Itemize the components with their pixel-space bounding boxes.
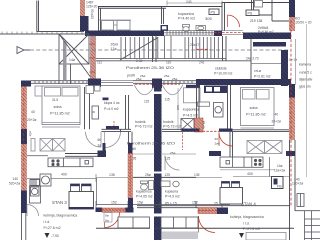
wall: navy pier right of pink left (126, 208, 134, 213)
wall: left wall of top bedroom (99, 7, 101, 31)
svg-text:305: 305 (205, 16, 212, 21)
svg-text:111: 111 (97, 61, 102, 65)
wire: counter shelf line right (220, 169, 275, 171)
text: stubiste label (214, 67, 232, 76)
text: kupaona right lower (165, 190, 180, 199)
stairs: up flight treads (121, 37, 158, 59)
wire: red dash in bath wall (129, 156, 131, 196)
door: arc bottom left entry (27, 205, 39, 217)
wire: right terrace line (295, 210, 320, 212)
svg-text:66: 66 (98, 138, 102, 142)
svg-text:kupaona: kupaona (165, 190, 178, 194)
svg-text:8ø: 8ø (105, 218, 109, 222)
furniture: washer right bath (214, 103, 224, 118)
wire: red dash in left wall (23, 88, 25, 189)
svg-text:8ø: 8ø (105, 214, 109, 218)
wall: left exterior navy lower (21, 191, 27, 214)
furniture: kitchen counter row right (220, 157, 263, 167)
wall: living right boundary (269, 157, 271, 177)
door: WC door arc (105, 132, 121, 148)
furniture: bed left soba (42, 86, 80, 125)
svg-text:15ø: 15ø (137, 201, 144, 205)
text: kitchen labels right (230, 215, 264, 231)
wire: red dashed vertical right (290, 20, 292, 206)
wire: red dashed line H1 (214, 32, 243, 34)
node: level marker right (239, 233, 254, 238)
wall: top edge right portion (222, 2, 293, 4)
wire: bed foot line (42, 123, 80, 128)
svg-text:PS: PS (211, 11, 216, 15)
wall: H2 navy band right (196, 79, 291, 85)
wall: right soba left wall (228, 85, 231, 129)
furniture: WC fixtures top (86, 86, 100, 94)
svg-text:kupaonica: kupaonica (178, 12, 194, 16)
wall: bath wall navy piece (128, 143, 133, 154)
svg-text:8ø5: 8ø5 (176, 105, 180, 111)
wall: stair wall pink hatched (91, 36, 96, 83)
svg-text:25ø: 25ø (145, 173, 151, 177)
wall: right exterior navy top (289, 0, 295, 17)
furniture: chair backs right dark (222, 182, 240, 184)
wall: pink wall left bath (102, 208, 126, 212)
svg-text:135: 135 (109, 173, 115, 177)
door: soba door arc (86, 132, 102, 147)
svg-text:kamena: kamena (299, 63, 311, 67)
text: red dim vrt (289, 58, 298, 62)
svg-text:25ø: 25ø (172, 77, 177, 81)
svg-text:P=27.6 m2: P=27.6 m2 (44, 226, 61, 230)
wall: right exterior pink lower (289, 98, 295, 141)
text: mid dim texts (109, 173, 218, 206)
svg-text:profil: profil (127, 74, 135, 78)
stairs: diagonal cut (120, 38, 158, 61)
text: Porotherm label upper (126, 66, 174, 78)
text: soba right labels (246, 106, 281, 124)
wire: kitchen left boundary (96, 178, 98, 206)
wall: bath wall pink (128, 154, 133, 199)
wall: H1 navy band right (243, 33, 291, 40)
svg-text:40: 40 (275, 113, 279, 117)
node: PS shaft box 2 (246, 10, 259, 16)
text: 25o marks (136, 77, 177, 81)
furniture: washer bottom left (30, 186, 41, 203)
wall: stair mid wall (153, 36, 157, 62)
wall: right exterior pink top (289, 17, 295, 31)
wire: mid dim line y204 (96, 201, 230, 208)
wire: top dimension line (167, 1, 222, 6)
door: small arc right hodnik (165, 156, 180, 171)
furniture: appliance box 1 (40, 174, 51, 186)
door: dark door leaf (103, 143, 106, 151)
svg-text:17ø: 17ø (111, 47, 118, 51)
furniture: beds top room (102, 21, 131, 31)
svg-text:P=10,00 m2: P=10,00 m2 (214, 72, 232, 76)
door: red arc right kitchen (199, 216, 216, 233)
svg-text:P=4.9 m2: P=4.9 m2 (165, 194, 180, 198)
svg-text:12ø+2ø: 12ø+2ø (274, 169, 285, 173)
wall: grey strip below right (162, 232, 198, 240)
svg-text:243: 243 (186, 0, 192, 4)
furniture: pillows right bed (243, 90, 270, 100)
wall: navy wall right of vrt (281, 50, 288, 86)
wall: bath wall left gray upper (129, 132, 133, 143)
wall: soba right wall double (85, 87, 90, 129)
furniture: fixtures right bath lower (161, 181, 179, 187)
wire: central wall slits (154, 92, 162, 217)
stairs: exterior steps bottom right (305, 211, 320, 240)
wall: upper-left exterior pink (80, 0, 85, 16)
shaft: elevator box with X (59, 34, 89, 64)
wire: H1 window ladder (164, 31, 214, 36)
node: PS shaft box 1 (209, 9, 219, 15)
wire: bottom wall line (96, 227, 294, 229)
wall: H1 navy band left (85, 31, 164, 37)
svg-text:Porotherm 25-36 IZO: Porotherm 25-36 IZO (127, 141, 175, 145)
svg-text:P=11.85 m2: P=11.85 m2 (50, 112, 70, 116)
wall: pink strip right bath (195, 118, 204, 132)
svg-text:241: 241 (199, 61, 205, 65)
text: 115 dims (144, 98, 170, 104)
text: 140 and 120+20 right margin (292, 178, 303, 186)
wire: red section segment (196, 48, 210, 50)
svg-text:90 ø20: 90 ø20 (90, 9, 94, 19)
wall: navy segment row wall b (219, 129, 233, 132)
wall: navy block below red arc (209, 151, 221, 156)
svg-text:P=4.05 m2: P=4.05 m2 (136, 194, 153, 198)
svg-text:kupaonica: kupaonica (136, 190, 152, 194)
text: 212 door size (104, 213, 112, 223)
furniture: shower box WC (92, 106, 99, 119)
door: corridor arc left (134, 85, 155, 95)
furniture: table left with chairs (71, 184, 92, 192)
text: kupaonica right apt (183, 108, 199, 118)
wall: navy pier left of pink left (96, 208, 103, 213)
wire: terrace outline top-left (0, 1, 84, 35)
svg-text:120/20 + 20: 120/20 + 20 (294, 21, 312, 25)
text: 400 right (247, 172, 253, 176)
svg-text:120+2ø: 120+2ø (292, 182, 303, 186)
svg-text:25ø: 25ø (170, 151, 175, 155)
wire: H2 window ladder (101, 80, 133, 85)
svg-text:25: 25 (214, 202, 218, 206)
wall: left exterior pink (21, 87, 27, 191)
wall: top bath left wall (162, 7, 164, 24)
furniture: nightstand (114, 21, 118, 26)
wall: WC right wall (126, 95, 129, 129)
furniture: shaft box right margin (297, 194, 304, 207)
wall: H2 thin wall mid (133, 81, 196, 84)
svg-text:400: 400 (247, 172, 253, 176)
svg-text:135: 135 (194, 173, 200, 177)
svg-text:520+2ø: 520+2ø (9, 182, 20, 186)
furniture: counters bottom left apt (118, 217, 150, 228)
furniture: sink top bath (196, 26, 206, 31)
wire: headboard line (99, 19, 131, 21)
svg-text:31.5: 31.5 (52, 98, 58, 102)
furniture: washer top bath (161, 25, 169, 31)
furniture: counters bottom right apt (161, 217, 198, 228)
svg-text:40: 40 (31, 110, 35, 114)
text: 66 door label right (215, 137, 221, 146)
furniture: table body (69, 192, 94, 210)
wall: H2 navy corner left (21, 81, 31, 87)
furniture: striped shaft box (30, 180, 40, 186)
svg-text:152: 152 (111, 201, 117, 205)
wire: red ticks on stair wall (89, 44, 95, 72)
wire: shaft walls down (59, 64, 71, 84)
svg-text:2.32: 2.32 (136, 59, 143, 63)
svg-text:vuna 5 c: vuna 5 c (299, 71, 312, 75)
text: STAN 3 (52, 200, 67, 205)
furniture: sink right bath (198, 102, 210, 106)
svg-text:P=4.5 m2: P=4.5 m2 (183, 113, 198, 117)
furniture: closet strip left (31, 139, 65, 152)
wall: navy pier right of pink right (217, 208, 228, 215)
furniture: toilet top bath (183, 25, 190, 32)
svg-text:kuhinja, blagovaonica: kuhinja, blagovaonica (44, 214, 78, 218)
door: red arc top right (228, 15, 240, 27)
svg-text:klupa 4 os: klupa 4 os (104, 101, 120, 105)
furniture: wardrobes X right (247, 141, 282, 154)
text: vrt dims (246, 57, 259, 61)
text: Porotherm label lower (127, 141, 175, 151)
svg-text:2ø6: 2ø6 (215, 142, 221, 146)
wall: navy block at divider end (98, 151, 107, 158)
text: rotated dim left wall (29, 131, 33, 137)
stairs: down flight treads (185, 37, 218, 59)
wall: navy segment row wall (182, 129, 200, 132)
svg-text:-7.90: -7.90 (51, 234, 59, 238)
node: level marker left (45, 233, 59, 238)
furniture: kitchen counter row left (48, 158, 93, 167)
wall: H1 navy pier mid (214, 31, 222, 37)
svg-text:P=4.0 m2: P=4.0 m2 (104, 107, 119, 111)
text: kupaonica left lower (136, 190, 153, 199)
svg-text:26x9: 26x9 (111, 43, 119, 47)
furniture: toilet right bath (198, 121, 205, 130)
wire: dim line 135 left (96, 177, 222, 179)
text: 25o small right (170, 151, 175, 155)
wire: section dashed line (30, 49, 290, 51)
svg-text:soba: soba (250, 106, 259, 110)
svg-text:soba: soba (54, 105, 63, 109)
wall: pink wall right bath (198, 208, 217, 214)
text: dims top-left (86, 1, 98, 20)
svg-text:24ø 2.73: 24ø 2.73 (246, 57, 259, 61)
node: section marker A (17, 47, 30, 54)
wall: stair end wall right (223, 36, 227, 61)
wall: right exterior navy upper (289, 84, 295, 98)
wire: hodnik divider line right (177, 88, 179, 130)
svg-text:14ø: 14ø (277, 164, 283, 168)
text: door dims 66 20 (98, 138, 102, 148)
wall: H2 navy pier centre (152, 79, 162, 89)
wall: central navy wall (154, 85, 162, 241)
wall: bath top wall right (162, 176, 197, 178)
wire: red dash vertical left (113, 121, 115, 130)
furniture: table body right (220, 188, 243, 205)
svg-text:126+20: 126+20 (86, 4, 98, 8)
svg-text:66: 66 (215, 137, 219, 141)
svg-text:P=4.40 m2: P=4.40 m2 (178, 17, 195, 21)
wire: red dash door right (195, 130, 219, 132)
wall: hodnik top wall left apt (102, 129, 132, 131)
svg-text:P=6.73 m2: P=6.73 m2 (135, 125, 152, 129)
svg-text:gips plo: gips plo (299, 85, 311, 89)
wall: kitchens top wall (137, 206, 290, 208)
wall: navy pier right wall mid (286, 151, 295, 156)
text: dims top right room (250, 19, 274, 34)
svg-text:110: 110 (166, 61, 171, 65)
wall: top edge of building left (98, 7, 222, 9)
text: soba left labels (27, 98, 70, 122)
text: rotated 85 dim (176, 105, 180, 111)
svg-text:hodnik: hodnik (163, 120, 174, 124)
wall: top-right room walls (252, 0, 290, 21)
furniture: sofa right bottom (246, 233, 286, 241)
svg-text:FB: FB (277, 185, 282, 189)
wall: living divider left (65, 154, 98, 157)
wall: vrt top navy band (253, 42, 286, 47)
furniture: bed right soba (241, 88, 275, 129)
text: hodnik dims small (131, 157, 171, 161)
svg-text:115: 115 (144, 100, 149, 104)
svg-text:P=2.81 m2: P=2.81 m2 (254, 75, 271, 79)
text: KO 120/20+20 red (294, 17, 312, 25)
svg-text:i t.d.: i t.d. (243, 222, 250, 226)
wall: H2 navy pier at stair wall (88, 79, 101, 88)
svg-text:26x17: 26x17 (190, 43, 199, 47)
svg-text:stubiste: stubiste (215, 67, 227, 71)
wall: bath top wall left (133, 176, 154, 178)
wire: red dash right pink wall (198, 210, 217, 212)
text: red window dim left (9, 177, 20, 186)
svg-text:85 + 15: 85 + 15 (165, 202, 177, 206)
door: red arc left kitchen (105, 213, 120, 228)
wire: red dash left pink wall (102, 209, 126, 211)
wall: row wall right apt y130 (162, 129, 289, 131)
wire: H1 window right (222, 31, 243, 35)
wire: dim line 400 right (233, 176, 290, 178)
wire: right edge line upper (295, 39, 297, 85)
text: WC labels (104, 101, 120, 111)
wall: right exterior wall lower double (290, 140, 296, 240)
furniture: dark cabinets under band (204, 86, 227, 94)
svg-text:25ø: 25ø (164, 74, 169, 78)
svg-text:14ø: 14ø (69, 58, 76, 62)
wall: dark block above doors (106, 126, 119, 129)
svg-text:dijamativ: dijamativ (299, 78, 313, 82)
svg-text:STAN 3: STAN 3 (52, 200, 67, 205)
door: corridor arc right (162, 85, 183, 95)
svg-text:kuhinja, blagovaonica: kuhinja, blagovaonica (230, 215, 264, 219)
svg-text:i t.d.: i t.d. (44, 220, 51, 224)
text: hodnik right (163, 120, 180, 129)
wire: divider line left of stove (27, 155, 48, 157)
svg-text:ø2ø: ø2ø (29, 131, 33, 137)
text: stair annotations (69, 43, 205, 65)
wall: right soba wall lower extension (230, 132, 233, 157)
text: dim 25o mid (145, 173, 200, 177)
svg-text:PS: PS (248, 12, 253, 16)
furniture: closet right bath top (184, 85, 201, 103)
wall: H2 stud wall left (31, 81, 88, 84)
svg-text:20+2ø: 20+2ø (27, 118, 36, 122)
node: FB column box (272, 177, 284, 189)
furniture: toilet left bath lower (141, 181, 148, 190)
svg-text:P=11.85 m2: P=11.85 m2 (246, 112, 266, 116)
text: kupaonica top (178, 12, 195, 21)
wall: stair-bath divider top right (222, 3, 225, 31)
furniture: dining chairs right (222, 182, 240, 188)
svg-text:20+2ø: 20+2ø (272, 120, 281, 124)
svg-text:1ø+2ø: 1ø+2ø (289, 58, 298, 62)
door: red arc hodnik right (219, 133, 233, 147)
svg-text:P=27.6 m2: P=27.6 m2 (243, 227, 260, 231)
furniture: WC dark bit (103, 98, 109, 101)
svg-text:25ø: 25ø (136, 77, 141, 81)
svg-text:Porotherm 25-36 IZO: Porotherm 25-36 IZO (126, 66, 174, 70)
wall: right bath left wall (197, 85, 200, 118)
furniture: wardrobe beside bed (35, 86, 42, 96)
wire: red dashed door openings (135, 83, 180, 85)
wire: red dash vertical at bath corner (182, 132, 184, 150)
svg-text:400: 400 (61, 172, 67, 176)
text: 400 left (61, 172, 67, 176)
svg-text:STAN 4: STAN 4 (241, 202, 256, 207)
text: dims near FB (274, 164, 285, 173)
wire: right margin dim line (306, 24, 308, 177)
svg-text:140: 140 (13, 177, 19, 181)
wall: gray pier in shaft (63, 41, 67, 80)
wire: left window lower (22, 213, 26, 240)
svg-text:2ø: 2ø (98, 144, 102, 148)
text: dim 243 top (186, 0, 192, 4)
wall: vrt room walls (251, 39, 281, 79)
svg-text:hodnik: hodnik (135, 120, 146, 124)
wire: hodnik dim line (128, 153, 196, 155)
text: 305 red (205, 16, 212, 21)
text: kamena vuna column (299, 63, 313, 89)
furniture: pillows left bed (45, 88, 79, 97)
furniture: cabinet top right (255, 1, 263, 8)
text: STAN 4 (241, 202, 256, 207)
wire: dim line 400 left (27, 174, 96, 182)
wall: bath wall navy lower (128, 198, 133, 208)
svg-text:219 138: 219 138 (250, 19, 262, 23)
svg-text:115: 115 (165, 98, 170, 102)
wire: shaft diagonal (59, 34, 91, 77)
wall: left exterior navy mid (21, 129, 27, 144)
svg-text:152: 152 (192, 201, 198, 205)
furniture: shower right bath (181, 119, 194, 131)
furniture: sink left bath lower (149, 181, 154, 190)
svg-text:vrt-ø: vrt-ø (254, 69, 261, 73)
furniture: chair backs dark (71, 184, 92, 186)
wire: landing frame lines (96, 36, 251, 61)
wall: upper-left navy pier (80, 16, 89, 31)
text: kitchen labels left (44, 214, 78, 231)
text: hodnik left (135, 120, 152, 129)
text: vrt room (254, 69, 271, 79)
svg-text:125: 125 (165, 173, 171, 177)
